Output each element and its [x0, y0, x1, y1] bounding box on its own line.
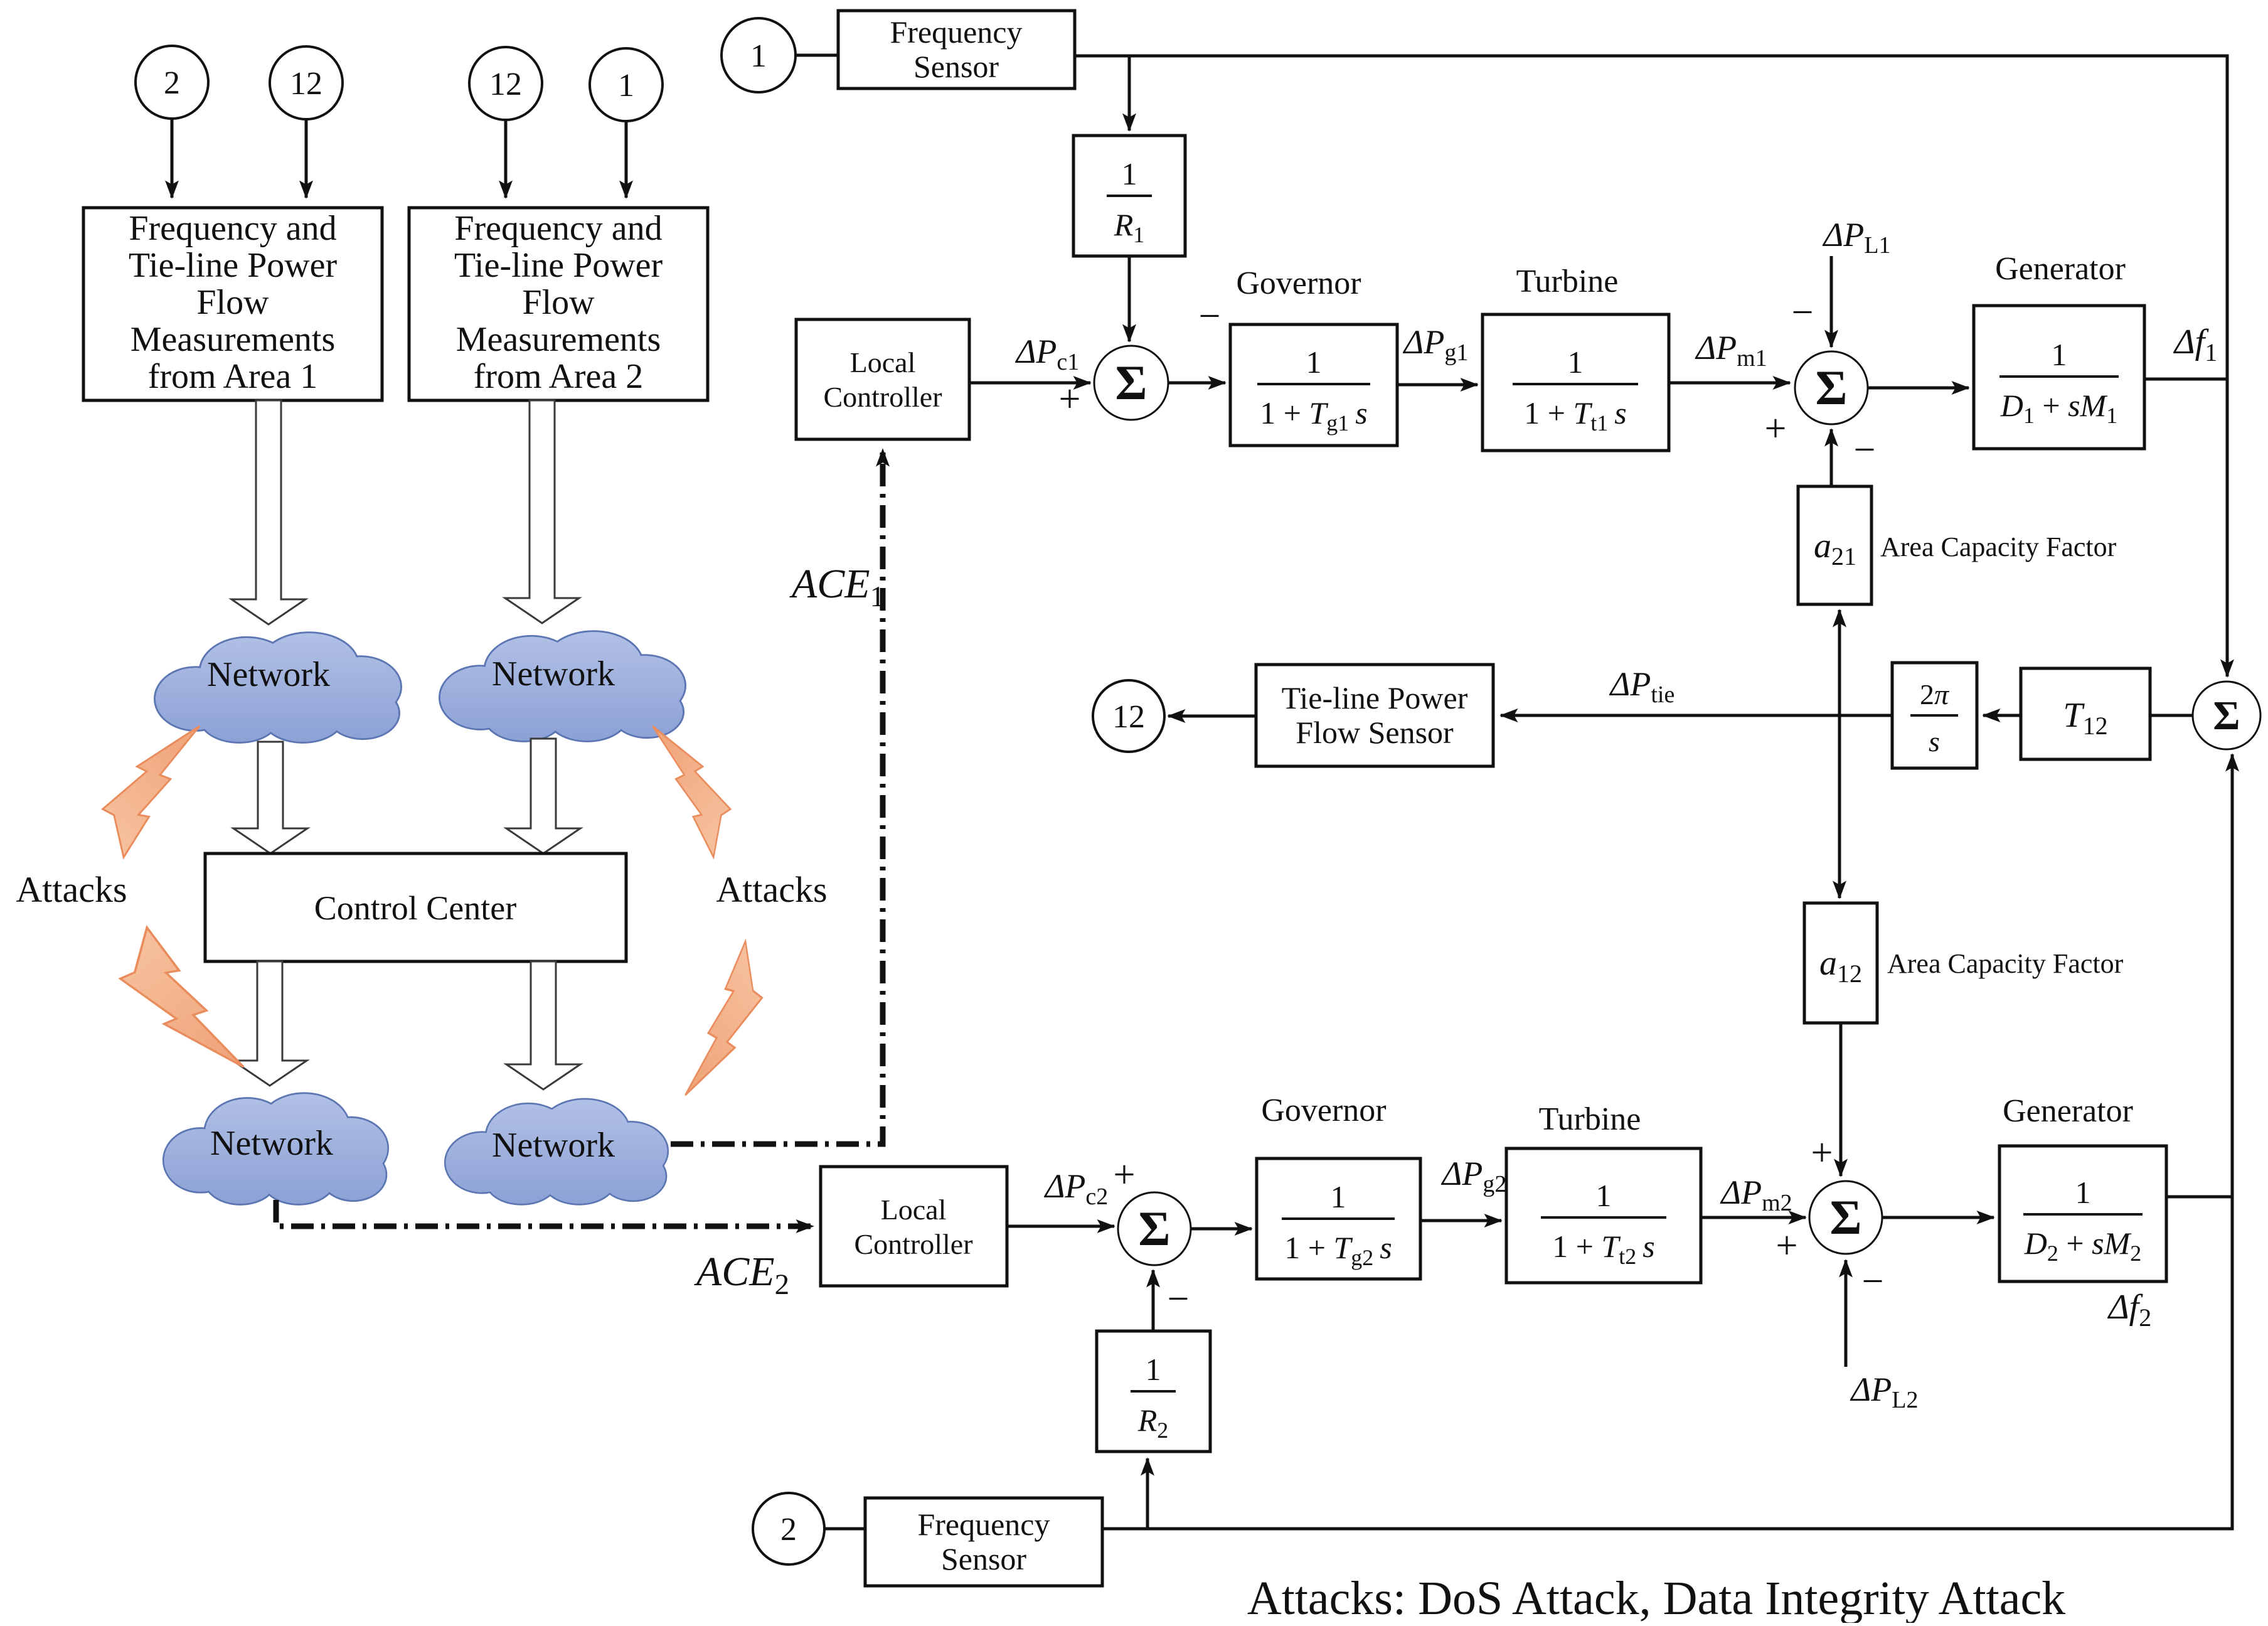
svg-text:Network: Network: [492, 655, 615, 693]
wire 1/R2 output into summing junction 4 bottom: [1152, 1270, 1155, 1331]
svg-text:Sensor: Sensor: [913, 49, 999, 84]
block: Turbine area 1 transfer function: [1483, 314, 1669, 451]
block arrow network cloud 1 to control center: [233, 742, 307, 853]
svg-text:Controller: Controller: [854, 1228, 972, 1260]
svg-text:1: 1: [2075, 1175, 2091, 1210]
svg-text:+: +: [1776, 1224, 1798, 1267]
network cloud 3: [164, 1094, 388, 1204]
block: Generator area 2 transfer function: [1999, 1146, 2166, 1281]
wire node 12 to measurements box area 2: [504, 120, 508, 198]
block: Frequency Sensor (area 1): [838, 11, 1075, 88]
wire delta PL1 load disturbance into summing junction 3: [1830, 256, 1833, 347]
svg-text:12: 12: [1112, 699, 1145, 735]
svg-text:Δf1: Δf1: [2173, 323, 2217, 366]
node 2 (connector circle to measurements box area 1): [136, 46, 208, 119]
wire tie-line junction down into a12 input: [1838, 715, 1841, 898]
svg-text:Σ: Σ: [1115, 355, 1147, 410]
block 1/R1 (droop area 1): [1073, 136, 1185, 256]
svg-text:12: 12: [290, 66, 322, 102]
svg-text:Frequency and: Frequency and: [129, 209, 336, 248]
wire node 1 to frequency sensor 1: [796, 54, 838, 57]
wire delta Pc2 from local controller 2 to summing junction 4: [1007, 1225, 1114, 1228]
summing junction 3 (area 1 generator input): [1795, 351, 1868, 424]
svg-text:Σ: Σ: [1830, 1190, 1862, 1244]
svg-text:Σ: Σ: [1816, 360, 1848, 415]
wire tie-line junction up into a21 input: [1838, 610, 1841, 715]
wire delta f1 from generator 1 to feedback bus: [2144, 378, 2227, 381]
block: Tie-line Power Flow Sensor: [1256, 665, 1493, 766]
svg-text:Σ: Σ: [2213, 693, 2240, 739]
wire ACE2 dash-dot from network cloud 3 to local controller 2: [276, 1200, 813, 1226]
wire delta Pg2 from governor 2 to turbine 2: [1420, 1219, 1501, 1222]
svg-text:Generator: Generator: [1995, 251, 2126, 287]
svg-text:1: 1: [618, 68, 634, 104]
svg-text:ΔPL2: ΔPL2: [1850, 1371, 1919, 1413]
wire tie summing junction to T12: [2150, 714, 2193, 717]
block: Frequency Sensor (area 2): [865, 1498, 1102, 1586]
svg-text:Attacks: DoS Attack, Data Inte: Attacks: DoS Attack, Data Integrity Atta…: [1247, 1572, 2065, 1623]
svg-text:Tie-line Power: Tie-line Power: [1282, 680, 1468, 715]
svg-text:Tie-line Power: Tie-line Power: [129, 246, 338, 285]
svg-text:Flow Sensor: Flow Sensor: [1296, 715, 1454, 750]
svg-text:ACE2: ACE2: [694, 1249, 789, 1301]
wire summing junction 3 to generator 1: [1868, 387, 1969, 390]
svg-text:Turbine: Turbine: [1516, 264, 1619, 299]
wire delta PL2 load disturbance into summing junction 5 bottom: [1845, 1260, 1848, 1367]
wire delta Ptie from integrator to tie-line power flow sensor: [1501, 714, 1892, 717]
node 1 (connector circle to measurements box area 2): [590, 48, 663, 121]
svg-text:Attacks: Attacks: [716, 869, 827, 910]
wire summing junction 4 to governor 2: [1191, 1228, 1252, 1231]
block arrow measurements area 1 to network cloud 1: [232, 400, 306, 624]
node 12 (connector circle to measurements box area 1): [270, 46, 343, 119]
svg-text:Flow: Flow: [522, 283, 595, 322]
node 1 (input to frequency sensor 1): [721, 18, 796, 92]
block: Governor area 2 transfer function: [1257, 1158, 1420, 1279]
block: Control Center: [205, 853, 626, 961]
block a21 area capacity factor: [1798, 486, 1871, 604]
wire delta Pg1 from governor 1 to turbine 1: [1397, 383, 1477, 387]
block 1/R2 (droop area 2): [1097, 1331, 1210, 1452]
wire 1/R1 output into summing junction 1: [1128, 256, 1131, 341]
svg-text:Governor: Governor: [1236, 265, 1361, 301]
wire frequency sensor 1 top bus to tie summing junction (delta f1 feedback): [1075, 56, 2227, 677]
svg-text:−: −: [1199, 295, 1221, 338]
block: Governor area 1 transfer function: [1230, 324, 1397, 446]
svg-text:1 + Tt2 s: 1 + Tt2 s: [1552, 1229, 1655, 1269]
svg-text:Δf2: Δf2: [2107, 1288, 2151, 1332]
svg-text:−: −: [1168, 1278, 1190, 1320]
block arrow network cloud 2 to control center: [506, 739, 580, 853]
svg-text:from Area 1: from Area 1: [148, 357, 318, 396]
attack lightning bolt upper-left toward network cloud 1: [103, 726, 200, 857]
wire node 1 to measurements box area 2: [625, 121, 628, 198]
wire summing junction 5 to generator 2: [1882, 1216, 1994, 1219]
block arrow measurements area 2 to network cloud 2: [505, 400, 579, 623]
svg-text:ΔPc2: ΔPc2: [1044, 1167, 1109, 1210]
svg-text:Turbine: Turbine: [1539, 1101, 1641, 1137]
svg-text:1 + Tg1 s: 1 + Tg1 s: [1260, 395, 1367, 436]
svg-text:1: 1: [1122, 156, 1137, 191]
svg-text:−: −: [1862, 1260, 1884, 1303]
svg-text:1 + Tt1 s: 1 + Tt1 s: [1524, 395, 1627, 436]
svg-text:Local: Local: [881, 1194, 947, 1226]
svg-text:Controller: Controller: [823, 381, 942, 413]
block: Local Controller (area 1): [796, 319, 969, 439]
block arrow control center to network cloud 4: [506, 961, 580, 1089]
node 2 (input to frequency sensor 2): [753, 1493, 824, 1564]
svg-text:Network: Network: [210, 1124, 333, 1163]
svg-text:ΔPg2: ΔPg2: [1441, 1155, 1507, 1197]
attack lightning bolt upper-right toward network cloud 2: [652, 726, 730, 857]
wire tie-line sensor to node 12: [1168, 715, 1256, 718]
svg-text:Flow: Flow: [196, 283, 269, 322]
wire branch from top bus into 1/R1: [1128, 56, 1131, 131]
svg-text:ΔPL1: ΔPL1: [1823, 216, 1891, 259]
node 12 (connector circle to measurements box area 2): [469, 47, 542, 120]
block: Frequency and Tie-line Power Flow Measurements from Area 1: [83, 208, 382, 400]
wire node 2 to measurements box area 1: [171, 119, 174, 198]
svg-text:1 + Tg2 s: 1 + Tg2 s: [1284, 1230, 1392, 1270]
svg-text:Measurements: Measurements: [456, 320, 661, 359]
wire node 2 to frequency sensor 2: [824, 1527, 865, 1531]
svg-text:ΔPg1: ΔPg1: [1403, 323, 1469, 366]
block: Turbine area 2 transfer function: [1506, 1148, 1701, 1283]
svg-text:12: 12: [489, 67, 522, 102]
svg-text:Network: Network: [492, 1126, 615, 1165]
wire ACE1 dash-dot from network cloud 4 to local controller 1: [671, 449, 883, 1144]
wire a12 output into summing junction 5 top: [1839, 1023, 1843, 1176]
svg-text:ΔPm1: ΔPm1: [1695, 329, 1767, 372]
block 2pi/s integrator: [1892, 663, 1977, 768]
block T12 synchronizing coefficient: [2021, 668, 2150, 759]
block: Frequency and Tie-line Power Flow Measurements from Area 2: [409, 208, 708, 400]
svg-text:+: +: [1811, 1131, 1833, 1174]
svg-text:+: +: [1765, 407, 1787, 450]
svg-text:1: 1: [1331, 1179, 1346, 1214]
svg-text:ΔPtie: ΔPtie: [1609, 665, 1675, 708]
svg-text:Control Center: Control Center: [314, 889, 516, 927]
svg-text:1: 1: [2052, 337, 2067, 372]
svg-text:Measurements: Measurements: [130, 320, 336, 359]
svg-text:s: s: [1929, 725, 1940, 757]
wire T12 to 2pi/s integrator: [1983, 714, 2021, 717]
svg-text:Frequency and: Frequency and: [454, 209, 662, 248]
svg-text:1: 1: [1568, 345, 1584, 380]
svg-text:−: −: [1792, 291, 1814, 334]
summing junction 4 (area 2 governor input): [1118, 1192, 1191, 1265]
svg-text:1: 1: [1306, 345, 1322, 380]
wire frequency sensor 2 output bus to tie summing junction bottom: [1102, 754, 2232, 1529]
wire summing junction 1 to governor 1: [1168, 382, 1225, 385]
svg-text:2: 2: [164, 65, 180, 101]
node 12 (tie-line sensor output): [1093, 680, 1164, 752]
svg-text:Area Capacity Factor: Area Capacity Factor: [1887, 948, 2124, 979]
svg-text:+: +: [1059, 378, 1081, 420]
svg-text:ΔPc1: ΔPc1: [1015, 333, 1080, 375]
wire node 12 to measurements box area 1: [305, 119, 308, 198]
svg-text:2π: 2π: [1920, 678, 1950, 710]
svg-text:Σ: Σ: [1139, 1201, 1171, 1256]
wire delta Pc1 from local controller 1 to summing junction 1: [969, 382, 1090, 385]
svg-text:Governor: Governor: [1261, 1093, 1386, 1128]
svg-text:from Area 2: from Area 2: [474, 357, 644, 396]
svg-text:1: 1: [1596, 1178, 1612, 1213]
block a12 area capacity factor: [1804, 903, 1877, 1023]
network cloud 4: [446, 1099, 668, 1204]
svg-text:ΔPm2: ΔPm2: [1720, 1174, 1792, 1216]
wire delta f2 from generator 2 to feedback bus: [2166, 1195, 2232, 1199]
svg-text:Attacks: Attacks: [16, 869, 127, 910]
wire a21 output into summing junction 3 bottom: [1830, 429, 1833, 486]
network cloud 1: [156, 633, 400, 742]
svg-text:2: 2: [780, 1512, 797, 1548]
block arrow control center to network cloud 3: [233, 961, 307, 1086]
network cloud 2: [440, 632, 684, 741]
summing junction 5 (area 2 generator input): [1809, 1181, 1882, 1254]
svg-text:Frequency: Frequency: [917, 1507, 1050, 1542]
svg-text:Frequency: Frequency: [890, 14, 1022, 50]
block: Generator area 1 transfer function: [1974, 306, 2144, 449]
svg-text:Sensor: Sensor: [941, 1541, 1026, 1576]
attack lightning bolt lower-right toward network cloud 4: [685, 941, 762, 1095]
svg-text:Generator: Generator: [2003, 1093, 2133, 1129]
svg-text:+: +: [1114, 1153, 1136, 1196]
block: Local Controller (area 2): [821, 1167, 1007, 1286]
svg-text:Network: Network: [207, 655, 330, 694]
attack lightning bolt lower-left toward network cloud 3: [120, 928, 243, 1067]
summing junction tie (delta f1 minus delta f2): [2193, 682, 2260, 749]
summing junction 1 (area 1 governor input): [1094, 346, 1168, 420]
svg-text:1: 1: [1146, 1352, 1161, 1387]
svg-text:D1 + sM1: D1 + sM1: [2000, 388, 2117, 428]
wire branch from bottom bus into 1/R2: [1146, 1458, 1149, 1529]
svg-text:D2 + sM2: D2 + sM2: [2024, 1226, 2141, 1266]
svg-text:−: −: [1854, 429, 1876, 471]
wire delta Pm1 from turbine 1 to summing junction 3: [1669, 382, 1790, 385]
svg-text:Tie-line Power: Tie-line Power: [454, 246, 663, 285]
svg-text:Local: Local: [850, 346, 916, 378]
svg-text:1: 1: [750, 38, 767, 74]
svg-text:ACE1: ACE1: [789, 561, 885, 613]
svg-text:Area Capacity Factor: Area Capacity Factor: [1880, 532, 2117, 562]
wire delta Pm2 from turbine 2 to summing junction 5: [1701, 1216, 1806, 1219]
